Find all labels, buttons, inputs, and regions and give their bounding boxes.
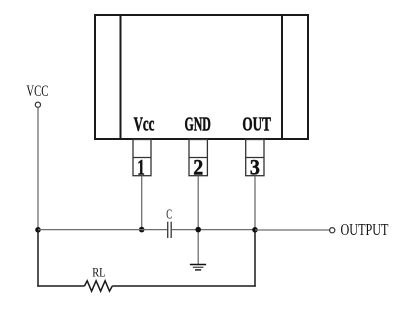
svg-text:C: C [166, 207, 172, 222]
resistor RL [85, 281, 113, 291]
svg-text:GND: GND [185, 113, 211, 135]
node pin1 junction dot [139, 227, 145, 233]
svg-text:RL: RL [92, 264, 105, 279]
svg-text:Vcc: Vcc [134, 113, 155, 135]
VCC terminal [35, 102, 40, 107]
wire pin 1 down [141, 176, 143, 230]
pin 2 lead [189, 140, 207, 176]
wire pin3 junction to OUTPUT terminal [255, 229, 330, 231]
wire VCC junction down to bottom rail [37, 230, 39, 287]
wire pin 2 down [197, 176, 199, 264]
IC package U1 body [95, 15, 308, 139]
wire node A to capacitor [38, 229, 167, 231]
package inner line right [281, 15, 283, 139]
node pin3 junction dot [252, 227, 258, 233]
wire VCC terminal to junction A [37, 107, 39, 229]
pin 3 lead [246, 140, 264, 176]
OUTPUT terminal [330, 228, 335, 233]
pin 1 lead [133, 140, 151, 176]
capacitor C [168, 222, 172, 238]
package inner line left [120, 15, 122, 139]
wire capacitor to pin3 junction [172, 229, 255, 231]
wire pin 3 down to bottom rail [254, 176, 256, 230]
svg-text:VCC: VCC [26, 83, 48, 100]
ground [190, 265, 206, 270]
wire bottom rail left segment [37, 285, 84, 287]
wire pin3 junction down to bottom rail [254, 230, 256, 287]
node A junction dot [35, 227, 41, 233]
wire bottom rail right segment [112, 285, 255, 287]
svg-text:OUT: OUT [242, 113, 271, 135]
node pin2 junction dot [195, 227, 201, 233]
svg-text:2: 2 [193, 154, 203, 179]
svg-text:OUTPUT: OUTPUT [341, 220, 389, 239]
svg-text:3: 3 [250, 154, 260, 179]
svg-text:1: 1 [137, 154, 145, 179]
